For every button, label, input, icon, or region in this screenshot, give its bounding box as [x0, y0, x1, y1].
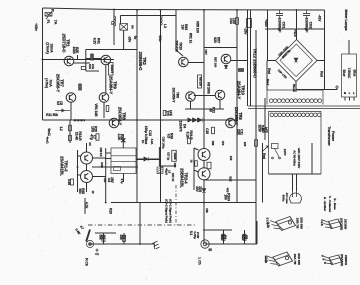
wire R5 stub — [244, 230, 246, 244]
diode bridge center — [294, 58, 298, 62]
wire junction — [236, 9, 238, 11]
svg-text:Black: Black — [292, 84, 296, 92]
wire junction — [139, 243, 141, 245]
svg-text:2SA984-Y: 2SA984-Y — [237, 81, 242, 100]
wire second rail — [121, 15, 177, 17]
svg-text:-41V: -41V — [318, 15, 322, 23]
svg-text:100: 100 — [223, 194, 227, 200]
wire relay inner 1 — [111, 155, 136, 157]
svg-text:120V: 120V — [283, 149, 287, 157]
wire bridge AC left — [267, 60, 276, 62]
trimmer VR1 box — [106, 106, 109, 112]
svg-text:141B: 141B — [72, 46, 76, 54]
wire feedback long rail — [255, 30, 257, 244]
svg-text:10A: 10A — [229, 18, 233, 25]
capacitor label C02 — [304, 18, 313, 33]
transistor TR7 — [66, 93, 76, 103]
svg-text:3.3k: 3.3k — [266, 222, 270, 228]
transformer primary box — [267, 90, 323, 105]
zener label ZD1 — [93, 38, 101, 45]
svg-text:0.5: 0.5 — [56, 101, 60, 105]
resistor label R4 — [220, 234, 227, 239]
wire R13 chain — [69, 120, 71, 143]
wire TR7 emitter down — [70, 102, 72, 120]
svg-text:L: L — [349, 91, 351, 95]
transistor label TR2-4 — [180, 168, 189, 188]
inductor L3 — [161, 16, 163, 26]
transistor TR1-3 a — [81, 152, 93, 164]
resistor R50 box — [207, 162, 211, 169]
svg-text:R57 100: R57 100 — [214, 57, 218, 68]
wire zobel row — [204, 179, 256, 181]
transistor TR1 — [64, 56, 74, 66]
svg-text:R51 1k: R51 1k — [189, 33, 193, 44]
wire D7 drop — [158, 147, 160, 166]
svg-text:C23: C23 — [103, 178, 107, 183]
svg-text:2SB 7I8: 2SB 7I8 — [296, 218, 300, 229]
wire TR4 base row — [204, 47, 237, 49]
diode D8 1S246 box — [172, 150, 177, 161]
svg-text:C E B: C E B — [320, 219, 323, 225]
thick bias mark — [74, 119, 85, 121]
svg-text:C1: C1 — [95, 252, 99, 256]
wire junction — [136, 119, 138, 121]
resistor label R63 — [180, 24, 188, 30]
wire +41V feed right — [250, 10, 252, 106]
wire fuse F3 — [122, 134, 124, 148]
svg-text:2.2k: 2.2k — [264, 257, 268, 263]
wire feedback bottom — [256, 221, 258, 244]
transistor TR2-4 b — [198, 168, 210, 180]
wire AC loop bottom — [269, 173, 322, 175]
capacitor C1 — [96, 249, 99, 253]
wire to D2 box — [86, 70, 99, 72]
wire AC cord right — [296, 174, 298, 191]
wire to TR1-3 top base — [78, 155, 81, 157]
capacitor label C13 — [144, 126, 152, 141]
svg-text:L2: L2 — [111, 21, 115, 25]
transformer secondary winding — [270, 113, 321, 117]
wire R4 stub — [223, 230, 225, 244]
resistor label R33 — [141, 139, 148, 145]
wire junction — [160, 9, 162, 11]
capacitor label C7 — [89, 134, 96, 140]
wire TR1-3a emitter out — [93, 157, 106, 159]
wire junction — [296, 9, 298, 11]
svg-text:47µ: 47µ — [89, 134, 93, 140]
wire lamp pin L1 — [349, 97, 351, 101]
transistor label TR2 2SB688 — [138, 52, 147, 72]
label hFE — [261, 127, 268, 134]
arrow Red lead — [262, 146, 268, 152]
transistor TR10 — [215, 90, 225, 100]
zener label ZD1 low — [88, 64, 95, 70]
svg-text:Meter Lamps: Meter Lamps — [344, 9, 348, 30]
svg-text:(CH-1 Signal Path): (CH-1 Signal Path) — [169, 199, 173, 223]
wire junction — [203, 202, 205, 204]
capacitor C15 box — [212, 127, 215, 134]
label B2E — [72, 46, 79, 54]
svg-text:40V: 40V — [195, 186, 199, 192]
wire centre tap down — [295, 90, 297, 93]
wire output ground bus — [205, 243, 257, 245]
resistor R5 box — [243, 234, 246, 240]
transformer core line 1 — [248, 105, 360, 107]
wire input coupling row — [95, 232, 116, 234]
svg-text:10000µF: 10000µF — [304, 18, 309, 33]
svg-text:L Ch: L Ch — [198, 257, 202, 264]
svg-text:+35v: +35v — [264, 19, 268, 27]
transistor TR5 — [226, 118, 236, 128]
svg-text:R Ch: R Ch — [85, 258, 89, 266]
svg-text:Blue: Blue — [342, 70, 346, 77]
svg-text:VR1 1kB: VR1 1kB — [94, 104, 98, 118]
wire junction — [136, 166, 138, 168]
package label 2SB688 — [293, 253, 301, 265]
svg-text:40: 40 — [208, 108, 212, 112]
label legend BCE — [323, 196, 337, 213]
svg-text:+41v: +41v — [293, 29, 297, 36]
transistor label TR1 2SD718 — [62, 34, 71, 54]
transistor label TR8 — [118, 107, 127, 126]
svg-text:0v: 0v — [133, 36, 137, 40]
resistor R13 box 2 — [69, 135, 72, 141]
svg-text:F1: F1 — [46, 20, 50, 24]
resistor R37 box — [163, 111, 166, 116]
diode label D01-D04 — [277, 45, 292, 60]
svg-text:4mΩ: 4mΩ — [46, 137, 50, 144]
wire junction — [203, 229, 205, 231]
resistor R5 emitter — [81, 66, 86, 69]
wire 4.7k branch — [84, 198, 86, 214]
diode D5 — [198, 118, 202, 122]
wire TR3 base drop — [85, 50, 87, 72]
svg-text:C25 100µ: C25 100µ — [162, 137, 166, 149]
resistor R3 box — [123, 235, 126, 241]
wire TR1 emitter out — [74, 62, 91, 64]
svg-text:(+70v): (+70v) — [45, 78, 49, 88]
wire protector diode row — [136, 159, 161, 161]
svg-text:Red: Red — [267, 68, 271, 74]
capacitor C19 box — [71, 179, 74, 185]
package label 2SC958 — [340, 218, 348, 230]
wire bias bus — [43, 119, 238, 121]
package 2SA841 outline — [322, 255, 342, 265]
svg-text:820: 820 — [213, 37, 217, 43]
label AC rating — [292, 147, 301, 168]
transistor TR2-4 a — [198, 149, 210, 161]
svg-text:Blue: Blue — [352, 70, 356, 77]
wire speaker return — [139, 203, 141, 244]
fuse F2 5A — [120, 24, 128, 31]
transformer primary winding — [269, 99, 321, 103]
relay box — [111, 148, 136, 174]
package 2SC958 outline — [323, 219, 342, 229]
package label 2SD688 — [296, 217, 304, 229]
svg-text:R11 50k: R11 50k — [46, 113, 58, 117]
svg-text:31k: 31k — [241, 234, 245, 239]
svg-text:1/2W: 1/2W — [257, 124, 261, 132]
connector CB box — [342, 54, 357, 97]
wire fuse F2 out — [123, 30, 125, 49]
wire relay output drop — [123, 174, 125, 183]
svg-text:2SC958-Y: 2SC958-Y — [56, 74, 61, 93]
wire chassis boundary vert — [175, 185, 177, 225]
arrow F1 — [46, 10, 54, 20]
wire junction — [203, 9, 205, 11]
svg-text:4.3A: 4.3A — [150, 139, 154, 146]
resistor label R45 — [78, 188, 85, 194]
svg-text:(2SA841): (2SA841) — [340, 254, 344, 266]
wire TR10 emitter — [219, 100, 221, 109]
resistor 5.6k box — [255, 140, 258, 147]
wire diff pair bases — [194, 95, 215, 97]
svg-text:470: 470 — [226, 188, 230, 193]
wire L2 feed — [113, 10, 115, 46]
wire -29V vertical rail — [136, 10, 138, 203]
svg-text:R29: R29 — [109, 208, 113, 214]
svg-text:R46: R46 — [211, 141, 215, 146]
resistor R42 box — [195, 161, 198, 167]
label Power Transformer — [327, 126, 335, 146]
capacitor C7 box — [96, 134, 99, 141]
resistor supply box — [247, 19, 252, 28]
wire TR1-3b emitter out — [93, 176, 106, 178]
svg-text:1k5: 1k5 — [229, 156, 233, 161]
input jack R ch — [86, 240, 93, 247]
wire D1 row — [55, 110, 70, 112]
wire AC cord left — [292, 174, 294, 191]
inductor L2 — [114, 16, 116, 26]
fuse F1 7A — [45, 13, 52, 17]
svg-text:R49: R49 — [173, 163, 177, 168]
svg-text:5.1: 5.1 — [189, 231, 193, 236]
svg-text:Red: Red — [320, 71, 324, 77]
svg-text:45: 45 — [208, 248, 212, 252]
wire R4 row — [205, 229, 232, 231]
diode TR4 emitter — [224, 65, 227, 68]
terminal lug — [336, 86, 338, 88]
wire relay stub 1 — [106, 152, 111, 154]
resistor label R5 — [241, 234, 248, 239]
diode D4 — [193, 118, 197, 122]
wire to TR1-3 bottom base — [78, 174, 81, 176]
svg-text:C57: C57 — [204, 49, 208, 55]
wire TR3a emitter — [190, 101, 192, 109]
wire zobel branch — [262, 143, 264, 203]
wire TR1-3 interstage — [86, 164, 88, 171]
svg-text:6mΩ: 6mΩ — [47, 128, 51, 136]
svg-text:-29v: -29v — [128, 36, 132, 43]
wire fuse F2 feed — [120, 16, 122, 24]
transistor label TR1-3 — [60, 156, 69, 176]
transistor label TR6 — [172, 88, 180, 104]
svg-text:Red: Red — [262, 153, 266, 159]
resistor label R15 — [90, 126, 97, 132]
svg-text:15k: 15k — [205, 208, 209, 213]
svg-text:-29v: -29v — [244, 28, 248, 35]
svg-text:2SD718-O: 2SD718-O — [62, 34, 67, 54]
transistor TR9 — [99, 93, 109, 103]
label AC Line — [281, 192, 289, 203]
transistor TR8 — [109, 118, 119, 128]
resistor R67 dark — [239, 69, 244, 72]
wire right stage rail — [236, 10, 238, 120]
wire lamp pin L2 — [353, 97, 355, 101]
resistor label R13 — [74, 131, 82, 141]
svg-text:with 120V 240V: with 120V 240V — [297, 147, 301, 168]
wire right stage rail lower — [236, 120, 238, 203]
wire junction — [136, 9, 138, 11]
wire bridge centre tap — [296, 82, 337, 90]
wire R3 stub — [123, 233, 125, 244]
svg-text:560: 560 — [78, 188, 82, 193]
wire TR2-4 interstage — [203, 160, 205, 169]
wire to TR2-4a — [194, 148, 199, 150]
svg-text:+24v: +24v — [158, 34, 162, 41]
svg-text:(CH-2 Signal Path): (CH-2 Signal Path) — [164, 199, 168, 223]
svg-text:(2SC958): (2SC958) — [340, 218, 344, 230]
capacitor label C46 — [193, 231, 200, 239]
transistor TR3 — [101, 55, 111, 65]
svg-text:10000µF: 10000µF — [277, 18, 282, 33]
svg-text:+29v: +29v — [34, 23, 38, 31]
relay coil box — [114, 167, 121, 171]
svg-text:6.2V: 6.2V — [93, 38, 97, 45]
resistor label R21 — [117, 134, 124, 141]
AC plug — [290, 191, 302, 203]
capacitor C02 10000uF — [303, 10, 310, 19]
wire output emitter bus — [105, 148, 107, 203]
resistor label R103 — [223, 193, 230, 201]
svg-text:220: 220 — [243, 142, 247, 147]
svg-text:4.7µ: 4.7µ — [120, 178, 124, 184]
svg-text:C17 1µ: C17 1µ — [167, 152, 171, 161]
label 25V — [107, 177, 114, 183]
transistor label TR7 — [56, 74, 65, 93]
transistor TR11 — [179, 57, 189, 67]
svg-text:1K8: 1K8 — [90, 126, 94, 132]
wire D7 row — [136, 158, 159, 160]
wire junction — [113, 9, 115, 11]
svg-text:1S2473: 1S2473 — [179, 120, 183, 131]
resistor R13 box — [69, 125, 72, 131]
capacitor label C01 — [277, 18, 286, 33]
wire lamp feed — [348, 40, 350, 54]
svg-text:40µH: 40µH — [165, 168, 169, 175]
capacitor label C11 — [236, 129, 243, 136]
resistor R19 — [79, 84, 82, 90]
wire AC left upper — [267, 10, 269, 61]
wire lamp pin B — [344, 97, 346, 101]
diode D2 1S2473 box — [109, 63, 114, 76]
wire relay stub 2 — [106, 158, 111, 160]
transformer secondary box — [269, 112, 322, 175]
package 2SB688 outline — [267, 252, 293, 266]
wire TR2 collector feed — [175, 10, 177, 50]
svg-text:22K: 22K — [236, 129, 240, 136]
svg-text:C15: C15 — [205, 128, 209, 134]
wire relay inner 2 — [111, 160, 136, 162]
inductor L5 hatched — [157, 167, 163, 174]
svg-text:6V2: 6V2 — [88, 64, 92, 69]
svg-text:E - Emitter: E - Emitter — [323, 197, 327, 212]
wire bridge AC left down — [266, 61, 268, 91]
svg-text:Transformer: Transformer — [327, 126, 331, 146]
wire output bus — [111, 202, 256, 204]
wire 5.6k branch — [264, 98, 266, 140]
wire to TR2-4b — [194, 170, 199, 172]
label TR1 current — [46, 42, 54, 53]
svg-text:R47 10: R47 10 — [171, 173, 175, 182]
svg-text:1S246: 1S246 — [173, 152, 177, 160]
wire input ground bus — [90, 243, 155, 245]
wire TR9 emitter down — [103, 102, 105, 118]
wire relay row — [92, 166, 136, 168]
wire TR3 to TR9 — [105, 65, 107, 93]
diode D3 — [188, 118, 192, 122]
svg-text:1.2: 1.2 — [59, 126, 63, 131]
wire L5 row — [159, 165, 176, 167]
diode D1 — [62, 109, 66, 113]
diode D7 — [144, 157, 148, 161]
transformer core line 2 — [248, 108, 360, 110]
svg-text:52K: 52K — [229, 176, 233, 182]
wire bridge + output — [296, 10, 298, 40]
wire TR2-4 base bus — [193, 148, 195, 190]
svg-text:(17mA): (17mA) — [46, 42, 50, 53]
wire junction — [160, 119, 162, 121]
transistor label TR5 — [234, 107, 243, 126]
package 2SD718 outline — [270, 217, 296, 231]
label TR7 current — [45, 78, 53, 88]
diode label D4 — [179, 120, 187, 131]
label hFE 170 — [165, 110, 172, 117]
wire chassis boundary — [88, 224, 195, 226]
resistor R63 box — [198, 75, 202, 88]
wire junction — [203, 119, 205, 121]
capacitor C01 10000uF — [276, 10, 283, 19]
svg-text:TR12 2SB688-O: TR12 2SB688-O — [253, 48, 258, 78]
wire -41V rail — [265, 28, 325, 30]
resistor label R3 — [119, 234, 126, 239]
svg-text:4.8: 4.8 — [107, 178, 111, 183]
wire mid vertical rail — [160, 10, 162, 203]
svg-text:2SA 7I8: 2SA 7I8 — [293, 254, 297, 265]
svg-text:0.5: 0.5 — [166, 134, 170, 139]
wire TR3 base row — [86, 58, 101, 60]
svg-text:0.46µ: 0.46µ — [193, 231, 197, 239]
transistor TR4 — [221, 54, 231, 64]
wire TR2-4 collector line — [203, 10, 205, 149]
ground input bus — [152, 241, 160, 249]
resistor label R1 — [98, 234, 105, 239]
package label 2SA841 — [340, 254, 348, 266]
svg-text:R63 220: R63 220 — [199, 77, 202, 86]
label L05 — [229, 18, 236, 25]
transistor label TR9 — [109, 76, 118, 95]
output jack L ch — [201, 240, 209, 248]
resistor label R12 — [208, 107, 215, 113]
svg-text:2SC958-Y: 2SC958-Y — [172, 88, 176, 104]
fuse F3 X — [121, 138, 125, 142]
svg-text:2SB841BL: 2SB841BL — [180, 168, 185, 188]
transistor TR3a — [186, 92, 196, 102]
svg-text:7A: 7A — [54, 20, 58, 25]
wire bridge AC right — [317, 60, 325, 62]
wire output pair bus — [77, 150, 79, 192]
svg-text:1W: 1W — [180, 24, 184, 30]
